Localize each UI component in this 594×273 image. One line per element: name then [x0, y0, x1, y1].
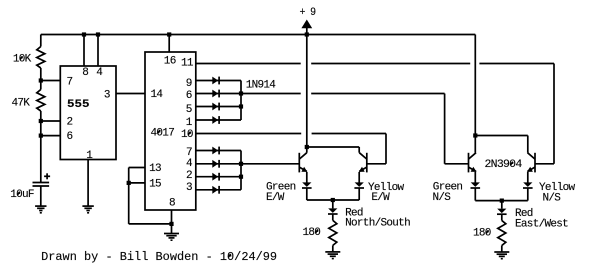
ground (capacitor)	[35, 205, 46, 207]
wire R3 to ground	[332, 245, 334, 252]
svg-text:3: 3	[186, 182, 192, 194]
node bus/row2	[239, 175, 243, 179]
wire Q4 emitter	[527, 172, 529, 183]
svg-text:8: 8	[82, 67, 88, 79]
wire LED to R4	[501, 214, 503, 220]
wire Q3 emitter	[474, 172, 476, 183]
LED Green E/W	[266, 182, 312, 205]
diode D7	[212, 173, 218, 181]
op IC U1 555 timer box	[60, 66, 116, 162]
svg-text:4017: 4017	[151, 127, 175, 139]
wire 4017 pin 16 to rail	[168, 35, 170, 53]
wire 4017 pin 8 down	[171, 210, 173, 234]
svg-text:13: 13	[149, 163, 161, 175]
ground (555 pin 1)	[82, 205, 93, 207]
wire E/W collector rail	[307, 146, 359, 148]
svg-text:4: 4	[186, 158, 193, 170]
node N/S join	[500, 199, 504, 203]
wire 555 pin 8 to rail	[83, 35, 85, 67]
diode D3	[212, 103, 218, 111]
wire 47K down to capacitor	[40, 111, 42, 183]
wire N/S collector rail	[475, 135, 528, 137]
wire 4017 pin 11 row	[196, 63, 301, 65]
svg-text:8: 8	[169, 198, 175, 210]
wire upper diode bus	[240, 81, 242, 121]
wire 555 pin 4 to rail	[97, 35, 99, 67]
svg-text:E/W: E/W	[371, 192, 390, 204]
wire top +9 rail	[41, 34, 476, 36]
resistor 10K	[13, 47, 45, 69]
wire 4017 pin 15	[129, 182, 145, 184]
wire 4017 pin 13	[129, 167, 145, 169]
diode D6	[212, 160, 218, 168]
IC U2 4017 counter box	[145, 52, 196, 210]
svg-text:10: 10	[181, 129, 193, 141]
node rail/pin8	[82, 32, 86, 36]
wire 4017 pin 7 row	[196, 150, 241, 152]
wire 10K to 47K	[40, 68, 42, 90]
resistor 47K	[12, 90, 45, 112]
svg-text:E/W: E/W	[266, 192, 285, 204]
node junction pin6	[39, 134, 43, 138]
node Q1 collector rail	[305, 145, 309, 149]
diode D4	[212, 116, 218, 124]
svg-text:10uF: 10uF	[10, 189, 34, 201]
svg-text:7: 7	[67, 77, 73, 89]
wire 4017 pin 9 row	[196, 80, 241, 82]
svg-text:5: 5	[186, 104, 192, 116]
svg-text:N/S: N/S	[433, 192, 452, 204]
node rail/+9 arrow	[305, 32, 309, 36]
LED Red North/South	[328, 207, 410, 229]
node bus/row6	[239, 91, 243, 95]
LED Green N/S	[433, 182, 481, 204]
ground (Red N/S)	[325, 251, 340, 253]
resistor R3 180	[303, 220, 337, 245]
wire pins 13/15 to ground	[129, 223, 172, 225]
wire to 555 pin 7	[41, 80, 61, 82]
svg-text:2N3904: 2N3904	[485, 159, 523, 171]
transistor Q2 (Yellow E/W driver)	[359, 153, 367, 173]
wire pin 11 drop to Q4 base	[553, 64, 555, 164]
LED Red East/West	[497, 208, 568, 231]
wire Q1 emitter	[306, 172, 308, 183]
LED Yellow E/W	[354, 182, 404, 204]
wire 4017 pin 4 row	[196, 163, 241, 165]
node bus/row5	[239, 104, 243, 108]
wire +9 drop to Q1 collector	[306, 35, 308, 153]
power +9 symbol	[300, 7, 316, 35]
wire 4017 pin 3 row	[196, 189, 241, 191]
svg-text:2: 2	[67, 117, 73, 129]
node rail/pin16	[167, 32, 171, 36]
capacitor C1 10uF	[10, 173, 50, 201]
node +9/left rail corner wire	[40, 35, 42, 47]
svg-text:6: 6	[186, 90, 192, 102]
ground (4017 pin 8)	[164, 233, 179, 235]
transistor Q4 (Yellow N/S driver)	[527, 153, 535, 173]
node pin8/reset wire junction	[169, 222, 173, 226]
node rail/pin4	[96, 32, 100, 36]
caption slashed zero	[228, 254, 230, 257]
LED Yellow N/S	[523, 182, 575, 204]
wire E/W emitters join	[306, 188, 308, 200]
svg-text:9: 9	[186, 78, 192, 90]
svg-text:555: 555	[67, 99, 90, 111]
diode D8	[212, 186, 218, 194]
node pin13/pin15 junction	[127, 181, 131, 185]
wire N/S emitters join	[474, 188, 476, 201]
wire lower diode bus	[240, 151, 242, 190]
wire 4017 pin 1 row	[196, 119, 241, 121]
wire +9 drop right to Q3 collector	[474, 35, 476, 153]
wire 4017 pin 5 row	[196, 106, 241, 108]
wire to Red N/S LED	[332, 200, 334, 208]
node E/W join	[331, 198, 335, 202]
transistor Q3 (Green N/S driver) 2N3904	[469, 153, 523, 173]
wire to 555 pin 2	[41, 120, 61, 122]
node junction 10K/47K/pin7	[39, 78, 43, 82]
svg-text:2: 2	[186, 170, 192, 182]
svg-text:15: 15	[149, 179, 161, 191]
node junction pin2	[39, 119, 43, 123]
svg-text:1: 1	[186, 117, 193, 129]
svg-text:11: 11	[181, 58, 194, 70]
svg-text:N/S: N/S	[543, 192, 562, 204]
svg-text:14: 14	[151, 89, 164, 101]
wire pin 10 drop to Q2 base	[385, 134, 387, 164]
wire 4017 pin 6 row	[196, 93, 241, 95]
svg-text:6: 6	[67, 131, 73, 143]
svg-text:North/South: North/South	[345, 218, 410, 230]
wire to Red E/W LED	[501, 201, 503, 209]
wire 555 pin3 to 4017 pin14	[116, 93, 145, 95]
wire 4017 pin 10 row	[196, 133, 301, 135]
diode D2	[212, 90, 218, 98]
wire bus to Q3 base (row 6)	[241, 93, 301, 95]
wire bus to Q1 base	[241, 163, 299, 165]
svg-text:3: 3	[104, 90, 110, 102]
svg-text:+ 9: + 9	[300, 7, 316, 19]
svg-text:Drawn by - Bill Bowden - 10/24: Drawn by - Bill Bowden - 10/24/99	[41, 250, 277, 264]
wire 555 pin 1 to ground	[87, 160, 89, 207]
wire Q2 emitter	[358, 172, 360, 183]
wire to 555 pin 6	[41, 135, 61, 137]
wire 4017 pin 2 row	[196, 176, 241, 178]
wire capacitor to ground	[40, 186, 42, 206]
svg-text:1N914: 1N914	[246, 80, 277, 92]
diode D5	[212, 147, 218, 155]
svg-text:16: 16	[164, 56, 176, 68]
node bus/row4	[239, 162, 243, 166]
resistor R4 180	[473, 221, 506, 246]
svg-text:180: 180	[473, 228, 491, 240]
wire R4 to ground	[501, 246, 503, 253]
diode D1 1N914	[212, 77, 276, 92]
svg-text:47K: 47K	[12, 98, 31, 110]
svg-text:East/West: East/West	[515, 218, 568, 230]
ground (Red E/W)	[494, 251, 509, 253]
svg-text:4: 4	[96, 67, 103, 79]
svg-text:180: 180	[303, 227, 321, 239]
node N/S collector rail	[473, 133, 477, 137]
wire LED to R3	[332, 214, 334, 220]
transistor Q1 (Green E/W driver)	[299, 153, 307, 173]
svg-text:10K: 10K	[13, 54, 32, 66]
